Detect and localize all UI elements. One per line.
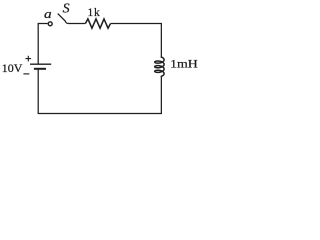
svg-text:S: S [63,2,70,17]
wire: node a stub, top-left corner, left side down to battery + [38,24,48,64]
battery 10V negative plate (short) [34,68,46,70]
wire: resistor right lead, top-right corner, down to inductor top [111,24,162,57]
battery + polarity mark [26,56,32,62]
node a open terminal [48,22,52,26]
battery 10V positive plate (long) [30,63,51,65]
resistor 1k [85,19,110,28]
svg-text:10V: 10V [2,62,23,75]
wire: switch pivot to resistor left lead [68,23,85,25]
svg-text:a: a [44,7,52,22]
svg-text:1mH: 1mH [170,57,198,70]
inductor 1mH coil [155,57,164,77]
battery - polarity mark [23,73,29,75]
svg-text:1k: 1k [88,7,101,19]
wire: battery - down, bottom side, right side up to inductor bottom [38,69,161,114]
switch S blade (open) [58,14,69,24]
